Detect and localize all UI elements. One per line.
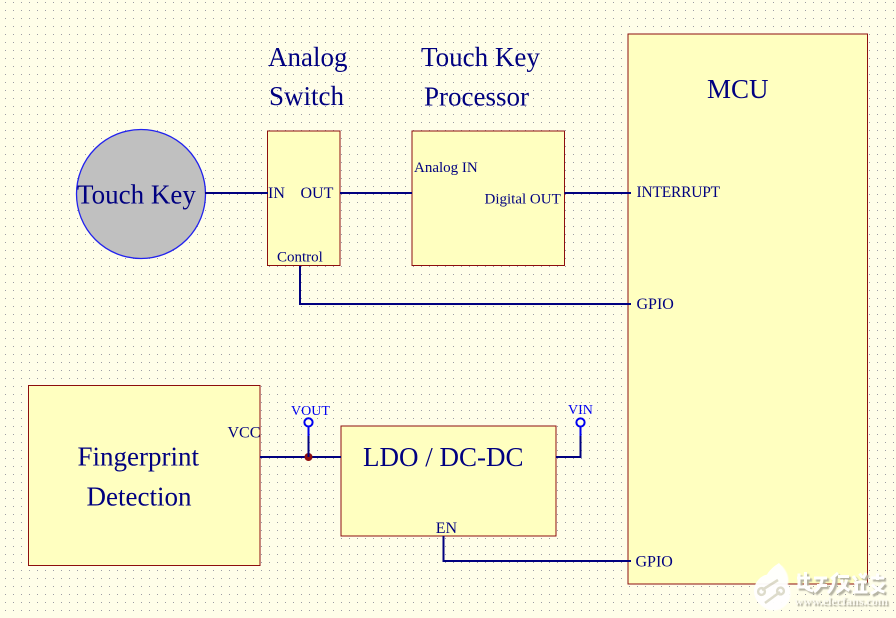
svg-text:Switch: Switch (269, 81, 345, 111)
junction on VCC net (305, 453, 313, 461)
svg-text:GPIO: GPIO (636, 554, 673, 571)
svg-text:Touch Key: Touch Key (421, 42, 540, 72)
svg-text:VCC: VCC (228, 424, 261, 441)
analog switch U1 title (268, 42, 347, 111)
svg-text:Fingerprint: Fingerprint (78, 442, 200, 472)
svg-text:VIN: VIN (568, 403, 593, 418)
wire analog switch OUT to processor Analog IN (340, 192, 412, 194)
touch key processor U2 block (412, 131, 565, 266)
svg-text:EN: EN (436, 520, 458, 537)
LDO / DC-DC regulator U5 block (341, 426, 556, 537)
svg-text:Detection: Detection (87, 482, 192, 512)
VOUT port terminal (291, 404, 330, 427)
svg-text:Analog: Analog (268, 42, 347, 72)
wire LDO EN to MCU GPIO (444, 536, 632, 561)
VOUT port stub wire (307, 427, 309, 457)
MCU U3 block (628, 34, 868, 584)
svg-text:OUT: OUT (301, 185, 334, 202)
svg-text:Digital OUT: Digital OUT (485, 192, 561, 208)
svg-text:GPIO: GPIO (637, 296, 674, 313)
svg-text:LDO / DC-DC: LDO / DC-DC (363, 442, 524, 472)
wire processor Digital OUT to MCU INTERRUPT (565, 192, 632, 194)
fingerprint detection U4 block (29, 386, 261, 566)
VIN port terminal (568, 403, 593, 436)
touch key processor U2 title (421, 42, 540, 112)
svg-text:Processor: Processor (424, 82, 529, 112)
analog switch U1 block (268, 131, 341, 266)
svg-text:Control: Control (277, 249, 323, 265)
wire touch key to analog switch IN (205, 192, 268, 194)
wire fingerprint VCC to LDO VOUT net (260, 456, 341, 458)
svg-text:Analog IN: Analog IN (414, 160, 478, 176)
svg-text:IN: IN (268, 185, 285, 202)
svg-text:VOUT: VOUT (291, 404, 330, 419)
wire analog switch Control to MCU GPIO (300, 266, 631, 304)
svg-text:MCU: MCU (707, 74, 769, 104)
svg-text:Touch Key: Touch Key (77, 180, 196, 210)
svg-text:INTERRUPT: INTERRUPT (637, 184, 721, 201)
touch key electrode pad (77, 130, 206, 259)
wire LDO to VIN port (556, 427, 581, 457)
